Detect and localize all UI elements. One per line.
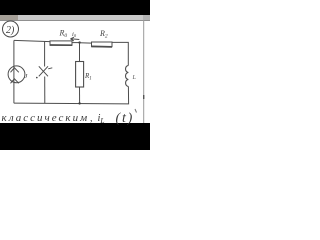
wire: node A to R2	[80, 42, 92, 44]
problem number circle "2)"	[3, 21, 19, 37]
wire: R1 to bottom rail	[79, 87, 81, 104]
wire: switch branch upper	[44, 41, 46, 66]
svg-text:2): 2)	[6, 25, 15, 36]
wire: switch branch lower	[44, 77, 46, 104]
current source J1 (circle with double arrowhead)	[8, 66, 25, 83]
stray scan mark	[135, 109, 137, 113]
node A junction dot	[78, 41, 80, 43]
svg-text:,: ,	[90, 113, 93, 124]
resistor R0	[50, 41, 72, 45]
svg-text:iL: iL	[98, 113, 105, 125]
wire: node A down to R1	[79, 43, 81, 62]
svg-text:L: L	[132, 75, 137, 81]
wire: R2 to top right corner and down	[112, 42, 128, 65]
wire: R0 to node A	[72, 42, 80, 44]
page right edge line	[143, 20, 145, 123]
current arrow i0	[71, 37, 80, 41]
switch S1	[36, 66, 52, 78]
wire: inductor to bottom right corner and bottom rail	[14, 87, 129, 104]
inductor L1	[126, 66, 129, 87]
node B junction dot	[78, 102, 80, 104]
resistor R2	[92, 42, 113, 47]
svg-text:J: J	[25, 73, 29, 80]
wire: top left horizontal (node top-left corner to R0)	[14, 40, 50, 41]
svg-text:R2: R2	[99, 29, 108, 40]
wire: left branch vertical	[13, 40, 15, 103]
top letterbox bar	[0, 0, 150, 15]
svg-text:R0: R0	[59, 29, 68, 40]
toolbar gray band	[0, 15, 150, 20]
resistor R1	[76, 62, 84, 88]
bottom letterbox bar	[0, 123, 150, 150]
svg-text:i0: i0	[72, 31, 77, 38]
svg-text:классическим: классическим	[2, 112, 90, 124]
svg-text:(t): (t)	[116, 111, 135, 126]
svg-text:R1: R1	[84, 72, 92, 82]
